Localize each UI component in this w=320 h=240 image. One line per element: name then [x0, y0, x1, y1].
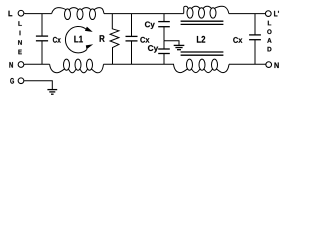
core of L2 (lower pair of core lines): [181, 52, 224, 55]
wire: L1 top winding to L2 top winding (top middle rail): [104, 13, 184, 15]
capacitor Cy (bottom Y-cap, neutral to ground): [158, 41, 170, 65]
label L1: [74, 36, 83, 43]
inductor L2 bottom winding (output common-mode choke): [174, 59, 230, 73]
label Cx (output): [233, 37, 242, 43]
wire: L1 bottom winding to L2 bottom winding (bottom middle rail): [104, 63, 175, 65]
core of L2 (upper pair of core lines): [181, 21, 224, 24]
label LINE (vertical): [18, 21, 22, 54]
terminal N' (load neutral): [266, 62, 272, 68]
terminal L (line input, live): [18, 10, 24, 16]
label N (load): [274, 63, 278, 69]
capacitor Cx (output X-cap across load): [249, 14, 261, 65]
ground (chassis ground at G input): [47, 90, 57, 95]
capacitor Cx (input X-cap across line): [36, 14, 48, 65]
label Cy (bottom): [148, 45, 158, 52]
terminal G (line input, ground): [18, 78, 24, 84]
wire: L2 top winding to L' terminal (top-right rail): [229, 13, 265, 15]
capacitor Cx (middle X-cap): [126, 14, 138, 65]
label Cx (input): [53, 37, 61, 43]
wire: G terminal to chassis ground: [24, 81, 52, 90]
terminal L' (load live): [265, 11, 271, 17]
label L: [8, 11, 12, 17]
label L2: [197, 36, 205, 43]
label Cy (top): [145, 21, 155, 28]
label LOAD (vertical): [267, 21, 271, 52]
inductor L1 top winding (common-mode choke): [52, 8, 104, 20]
inductor L1 bottom winding (common-mode choke): [50, 59, 104, 73]
label L': [274, 11, 279, 17]
resistor R (bleeder across line): [110, 14, 119, 65]
label N: [9, 62, 13, 68]
inductor L2 top winding (output common-mode choke): [184, 6, 229, 18]
ground (Y-cap midpoint chassis ground): [174, 45, 185, 49]
label R: [100, 35, 105, 42]
label Cx (middle): [140, 37, 149, 43]
wire: N terminal to L1 bottom winding (bottom-left rail): [24, 63, 49, 65]
wire: L terminal to L1 top winding (top-left rail): [24, 12, 51, 14]
flux arrow of L1 (circular arrow): [65, 27, 93, 53]
capacitor Cy (top Y-cap, line to ground): [158, 14, 170, 41]
wire: L2 bottom winding to N' terminal (bottom-right rail): [229, 63, 266, 65]
terminal N (line input, neutral): [18, 62, 24, 68]
label G: [10, 78, 14, 84]
wire: Cy midpoint to chassis ground tap: [164, 41, 179, 45]
